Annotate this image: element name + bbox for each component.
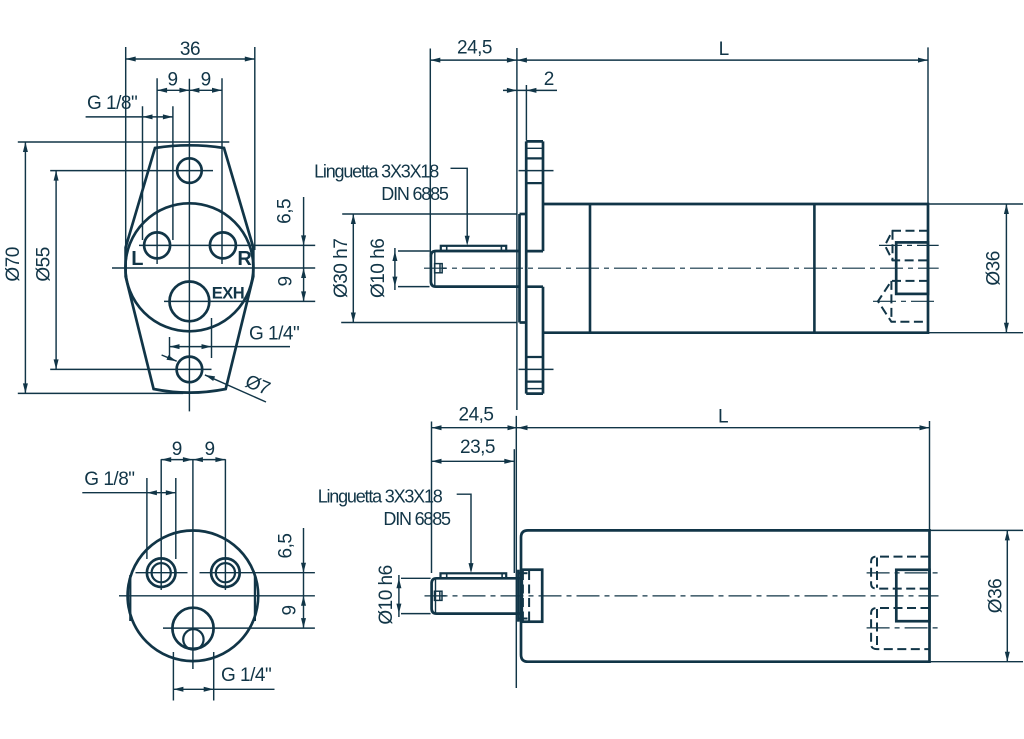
dim Ø70 extension bottom [18, 392, 183, 394]
svg-text:Ø10 h6: Ø10 h6 [368, 239, 389, 298]
port R outer [211, 558, 240, 587]
dim L extension right (body end) [927, 47, 929, 204]
dim 36 line with arrows [126, 58, 255, 60]
dim extension at boss face [516, 48, 518, 410]
key (bottom view) [441, 573, 507, 578]
dim 2 extension [525, 85, 527, 141]
dim 6,5 / 9 line with arrows (bottom view) [303, 528, 305, 628]
hole L vertical centerline [156, 78, 158, 264]
dim G1/4 line with arrows [170, 346, 291, 348]
svg-text:9: 9 [280, 605, 301, 615]
dim 23,5 line with arrows [432, 460, 515, 462]
flange plate back face upper [542, 141, 545, 251]
svg-text:G 1/4": G 1/4" [249, 324, 299, 345]
flange plate front face [525, 141, 528, 393]
dim G1/4 extension lines [169, 337, 171, 358]
mounting hole bottom in plate [526, 356, 543, 358]
svg-text:9: 9 [172, 439, 182, 460]
dim G1/4 line with arrows (bottom view) [173, 688, 274, 690]
dim Ø36 extensions (top view) [928, 203, 1023, 205]
dim L extension right (bottom view) [929, 421, 931, 530]
port EXH inner [183, 629, 203, 649]
svg-text:36: 36 [180, 39, 200, 60]
svg-text:9: 9 [205, 439, 215, 460]
svg-text:R: R [237, 248, 252, 270]
dim G1/8 extensions (bottom view) [146, 478, 148, 559]
body circle Ø36 (bottom view) [128, 531, 259, 662]
key (linguetta) on shaft [441, 246, 506, 251]
port L inner [152, 563, 171, 582]
port R inner [216, 563, 235, 582]
shaft Ø10 with rounded end [431, 251, 520, 287]
hub front face line [517, 570, 520, 622]
svg-text:6,5: 6,5 [275, 199, 296, 224]
vertical centerline (bottom-left view) [192, 459, 194, 669]
dim Ø55 line with arrows [55, 171, 57, 370]
svg-text:DIN 6885: DIN 6885 [383, 509, 451, 529]
shaft bore through plate [526, 250, 543, 253]
motor body outline (bottom view) [521, 530, 930, 661]
svg-text:G 1/4": G 1/4" [221, 665, 271, 686]
svg-text:6,5: 6,5 [276, 534, 297, 559]
leader to key (bottom view) [457, 494, 471, 570]
svg-text:24,5: 24,5 [459, 405, 494, 426]
centerline bottom mounting hole [50, 368, 211, 370]
hidden port G1/4 (lower, rear) [878, 281, 928, 322]
flange outline (oval mounting flange Ø70) [126, 145, 254, 392]
svg-text:9: 9 [201, 70, 211, 91]
svg-text:Ø7: Ø7 [242, 371, 273, 400]
svg-text:23,5: 23,5 [460, 437, 495, 458]
dim 36 extension left [125, 47, 127, 250]
dim Ø10 extensions (bottom view) [401, 577, 431, 579]
dim 24,5 / L line with arrows [430, 59, 928, 61]
hub hidden lines [522, 571, 524, 621]
dim Ø36 line with arrows (top view) [1005, 204, 1007, 333]
svg-text:Linguetta 3X3X18: Linguetta 3X3X18 [314, 162, 439, 182]
main centerline (top view) [424, 267, 939, 269]
flange plate bottom cap [526, 392, 543, 395]
dim Ø36 line with arrows (bottom view) [1006, 530, 1008, 661]
dim Ø10 extension lines [398, 250, 430, 252]
svg-text:Ø30 h7: Ø30 h7 [331, 239, 352, 298]
dim 9-9 line with arrows [157, 89, 222, 91]
port L vertical centerline [160, 459, 162, 590]
svg-text:24,5: 24,5 [457, 38, 492, 59]
port L outer [147, 558, 176, 587]
hidden port G1/8 (bottom view) [871, 557, 929, 589]
dim Ø30 extension lines [342, 213, 517, 215]
port R vertical centerline [224, 459, 226, 590]
mounting hole top Ø7 [177, 158, 202, 183]
svg-text:9: 9 [276, 276, 297, 286]
leader Ø7 lower segment with arrow [205, 375, 266, 402]
shaft Ø10 (bottom view) [432, 578, 522, 613]
hidden port G1/4 (bottom view) [871, 608, 929, 649]
hidden port G1/8 (upper, rear) [885, 231, 928, 261]
svg-text:Ø36: Ø36 [986, 579, 1007, 613]
centerline through ports L-R [136, 572, 188, 574]
dim Ø36 extensions (bottom view) [930, 529, 1024, 531]
dim 24,5 / L line with arrows (bottom view) [432, 427, 930, 429]
svg-text:2: 2 [544, 69, 554, 90]
shaft centre drill mark [435, 264, 443, 273]
body joint line 2 [813, 204, 816, 333]
centerline top mounting hole [50, 170, 213, 172]
main centerline (bottom view) [425, 595, 939, 597]
dim 9-9 line with arrows (bottom view) [161, 459, 225, 461]
svg-text:DIN 6885: DIN 6885 [381, 184, 449, 204]
dim Ø10 line with arrows [394, 248, 396, 290]
flat left [129, 575, 131, 621]
leader Ø7 upper segment with arrow [162, 355, 177, 361]
svg-text:G 1/8": G 1/8" [84, 469, 134, 490]
motor body circle Ø36 behind flange [125, 203, 253, 331]
svg-text:L: L [718, 407, 728, 428]
dim G1/8 line with arrows [86, 116, 174, 118]
dim 23,5 extension right [513, 449, 515, 573]
body joint line 1 [589, 204, 592, 333]
svg-text:EXH: EXH [212, 285, 244, 303]
dim G1/8 extension lines [142, 106, 144, 240]
port hole EXH G1/4 [170, 282, 210, 322]
dim G1/4 extensions (bottom view) [172, 652, 174, 701]
rear slot (bottom view) [896, 570, 929, 621]
centerline through port EXH [163, 627, 315, 629]
horizontal centerline (bottom-left view) [119, 595, 315, 597]
spigot boss bottom edge [520, 321, 527, 324]
svg-text:G 1/8": G 1/8" [87, 93, 137, 114]
centerline through holes L-R [139, 244, 315, 246]
svg-text:Ø36: Ø36 [984, 251, 1005, 285]
dim 2 line with outside arrows [503, 89, 557, 91]
flange plate top cap [526, 140, 543, 143]
svg-text:Ø10 h6: Ø10 h6 [376, 565, 397, 624]
svg-text:L: L [131, 248, 143, 270]
spigot boss Ø30 front face [518, 214, 521, 323]
port hole L G1/8 [144, 232, 170, 258]
dim 24,5 + 23,5 extension left (bottom view) [431, 422, 433, 574]
svg-text:Ø70: Ø70 [3, 247, 24, 281]
dim 24,5 extension right (bottom view) [515, 416, 517, 688]
port EXH outer [172, 608, 213, 649]
flat right [254, 575, 256, 621]
hole R vertical centerline [221, 78, 223, 264]
spigot boss top edge [520, 213, 527, 216]
rear slot [896, 242, 928, 294]
dim 6,5 / 9 line with arrows (right of flange) [303, 197, 305, 301]
dim G1/8 line with arrows (bottom view) [82, 492, 176, 494]
dim 24,5 + L extension left (shaft end) [429, 49, 431, 258]
shaft end chamfer line [434, 251, 436, 287]
dim Ø30 line with arrows [352, 214, 354, 323]
dim Ø70 extension top [18, 141, 230, 143]
port hole R G1/8 [210, 232, 236, 258]
motor body outline Ø36 [543, 204, 928, 333]
shaft centre drill mark (bottom view) [434, 591, 442, 600]
front hub [522, 570, 542, 622]
leader to key (top view) [451, 168, 468, 243]
svg-text:Linguetta 3X3X18: Linguetta 3X3X18 [318, 487, 443, 507]
horizontal centerline flange view [112, 267, 315, 269]
centerline through hole EXH [164, 300, 315, 302]
flange plate back face lower [542, 287, 545, 394]
mounting hole top in plate [526, 157, 543, 159]
mounting hole bottom Ø7 [177, 357, 203, 383]
svg-text:Ø55: Ø55 [33, 247, 54, 281]
dim Ø70 line with arrows [24, 142, 26, 393]
svg-text:9: 9 [168, 70, 178, 91]
svg-text:L: L [719, 39, 729, 60]
dim 36 extension right [254, 47, 256, 250]
vertical centerline flange view [188, 79, 190, 412]
dim Ø10 line with arrows (bottom view) [398, 575, 400, 617]
